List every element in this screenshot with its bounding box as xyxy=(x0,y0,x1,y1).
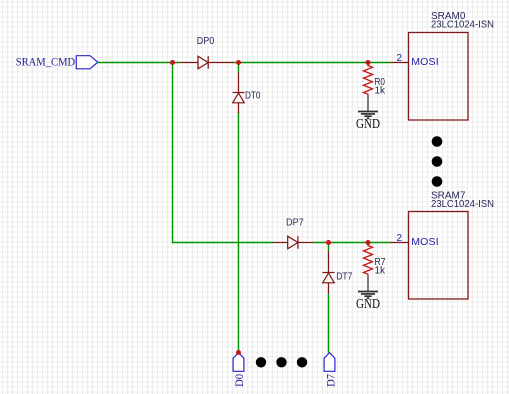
junction dot (368,242) xyxy=(366,240,371,245)
wire: lower horizontal net y=242 (corner to DP7 anode) xyxy=(173,242,274,244)
resistor R0 xyxy=(364,63,373,96)
ground symbol GND (R0) xyxy=(358,96,378,119)
svg-text:SRAM_CMD: SRAM_CMD xyxy=(16,56,75,69)
svg-text:D0: D0 xyxy=(232,374,246,387)
wire: vertical net x=328.5 from lower row through DT7 down to port D7 xyxy=(328,242,330,353)
IC SRAM0 23LC1024-ISN xyxy=(409,33,469,121)
wire: main horizontal net y=62 (port to DP0 anode) xyxy=(98,62,180,64)
svg-text:23LC1024-ISN: 23LC1024-ISN xyxy=(431,20,494,31)
junction dot (368,62) xyxy=(366,60,371,65)
port SRAM_CMD xyxy=(76,56,98,69)
svg-text:DP7: DP7 xyxy=(286,218,304,229)
junction dot (238,62) xyxy=(236,60,241,65)
pin 2 of SRAM0 xyxy=(391,62,410,64)
diode DT0 xyxy=(233,73,245,114)
horizontal ellipsis dots xyxy=(256,357,307,367)
junction dot at port D0 (238.5,352.5) xyxy=(236,350,241,355)
junction dot (328.5,242) xyxy=(326,240,331,245)
pin 2 of SRAM7 xyxy=(391,242,410,244)
wire: lower horizontal net y=242 (DP7 cathode to SRAM7 pin) xyxy=(313,242,391,244)
port D0 xyxy=(233,353,244,372)
IC SRAM7 23LC1024-ISN xyxy=(409,212,469,300)
diode DP7 xyxy=(273,236,313,249)
svg-text:D7: D7 xyxy=(323,374,337,387)
svg-text:1k: 1k xyxy=(375,266,387,277)
wire: vertical net x=238 from top row through DT0 down to port D0 xyxy=(238,62,240,353)
resistor R7 xyxy=(364,243,373,276)
svg-text:GND: GND xyxy=(356,296,380,311)
svg-text:GND: GND xyxy=(356,116,380,131)
svg-text:DP0: DP0 xyxy=(197,36,215,47)
svg-text:DT7: DT7 xyxy=(336,271,352,282)
svg-text:DT0: DT0 xyxy=(245,91,261,102)
wire: vertical branch at x=172 down to lower row xyxy=(172,62,174,243)
svg-text:2: 2 xyxy=(396,53,402,64)
svg-text:1k: 1k xyxy=(375,86,387,97)
ground symbol GND (R7) xyxy=(358,276,378,299)
svg-text:MOSI: MOSI xyxy=(411,236,439,248)
diode DT7 xyxy=(323,251,335,294)
vertical ellipsis dots xyxy=(432,136,443,187)
wire: main horizontal net y=62 (DP0 cathode to SRAM0 pin) xyxy=(233,62,391,64)
svg-text:23LC1024-ISN: 23LC1024-ISN xyxy=(431,199,494,210)
diode DP0 xyxy=(180,56,233,69)
junction dot (172,62) xyxy=(170,60,175,65)
svg-text:MOSI: MOSI xyxy=(411,56,439,68)
port D7 xyxy=(324,353,335,372)
svg-text:2: 2 xyxy=(396,233,402,244)
